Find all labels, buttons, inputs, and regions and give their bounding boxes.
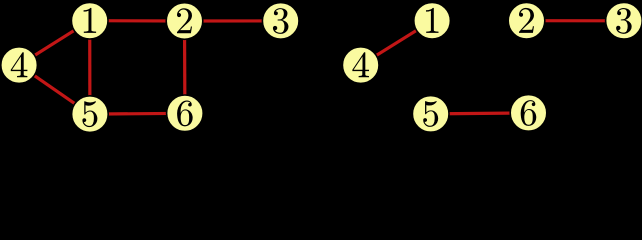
- node R4: [342, 47, 379, 84]
- wire edge L1-L4: [19, 21, 90, 65]
- wire edge R5-R6: [431, 113, 529, 114]
- wire edge L1-L5: [88, 21, 91, 114]
- label R1: [426, 8, 439, 33]
- label R2: [519, 8, 534, 33]
- wire edge L2-L6: [183, 21, 187, 113]
- label R3: [616, 8, 632, 34]
- node R1: [414, 2, 451, 39]
- label L3: [273, 8, 289, 34]
- wire edge L2-L3: [185, 19, 281, 22]
- label R5: [423, 101, 438, 127]
- node R6: [510, 95, 547, 132]
- wire edge R4-R1: [361, 21, 432, 65]
- node L2: [166, 3, 203, 40]
- node L5: [72, 96, 109, 133]
- node L3: [262, 3, 299, 40]
- node R3: [606, 3, 642, 40]
- node L1: [71, 2, 108, 39]
- label L6: [177, 101, 193, 127]
- label L1: [84, 8, 97, 33]
- label L2: [177, 8, 192, 33]
- node L6: [167, 95, 204, 132]
- label L5: [82, 101, 97, 127]
- label L4: [11, 52, 28, 77]
- wire edge L5-L6: [90, 112, 185, 116]
- label R4: [352, 52, 369, 77]
- node R5: [412, 96, 449, 133]
- label R6: [521, 100, 537, 126]
- node L4: [1, 47, 38, 84]
- wire edge L4-L5: [19, 65, 90, 114]
- wire edge L1-L2: [90, 19, 185, 22]
- wire edge R2-R3: [527, 19, 624, 22]
- node R2: [508, 2, 545, 39]
